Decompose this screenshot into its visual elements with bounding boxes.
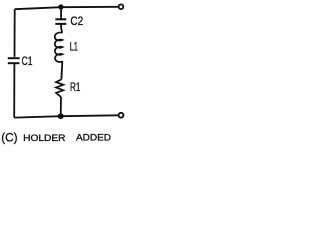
node top junction dot — [58, 4, 63, 9]
resistor R1 — [56, 79, 63, 97]
svg-text:R1: R1 — [70, 82, 80, 94]
svg-text:(C): (C) — [1, 130, 17, 144]
svg-text:HOLDER: HOLDER — [23, 132, 66, 143]
wire C2 to L1 — [61, 24, 62, 33]
capacitor C2 — [55, 19, 66, 24]
wire left vertical lower — [13, 63, 15, 117]
svg-text:ADDED: ADDED — [76, 132, 111, 143]
capacitor C1 — [8, 58, 20, 63]
node top-right terminal — [119, 4, 124, 9]
inductor L1 — [55, 32, 63, 61]
wire L1 to R1 — [60, 61, 63, 79]
wire C2 top lead — [60, 8, 62, 19]
wire R1 bottom lead — [60, 97, 62, 116]
svg-text:C1: C1 — [22, 56, 33, 68]
node bottom-right terminal — [119, 113, 124, 118]
wire top horizontal — [15, 7, 119, 9]
wire left vertical upper — [14, 9, 16, 57]
wire bottom horizontal — [14, 115, 118, 117]
svg-text:C2: C2 — [70, 16, 83, 28]
node bottom junction dot — [58, 113, 64, 119]
svg-text:L1: L1 — [70, 42, 78, 54]
